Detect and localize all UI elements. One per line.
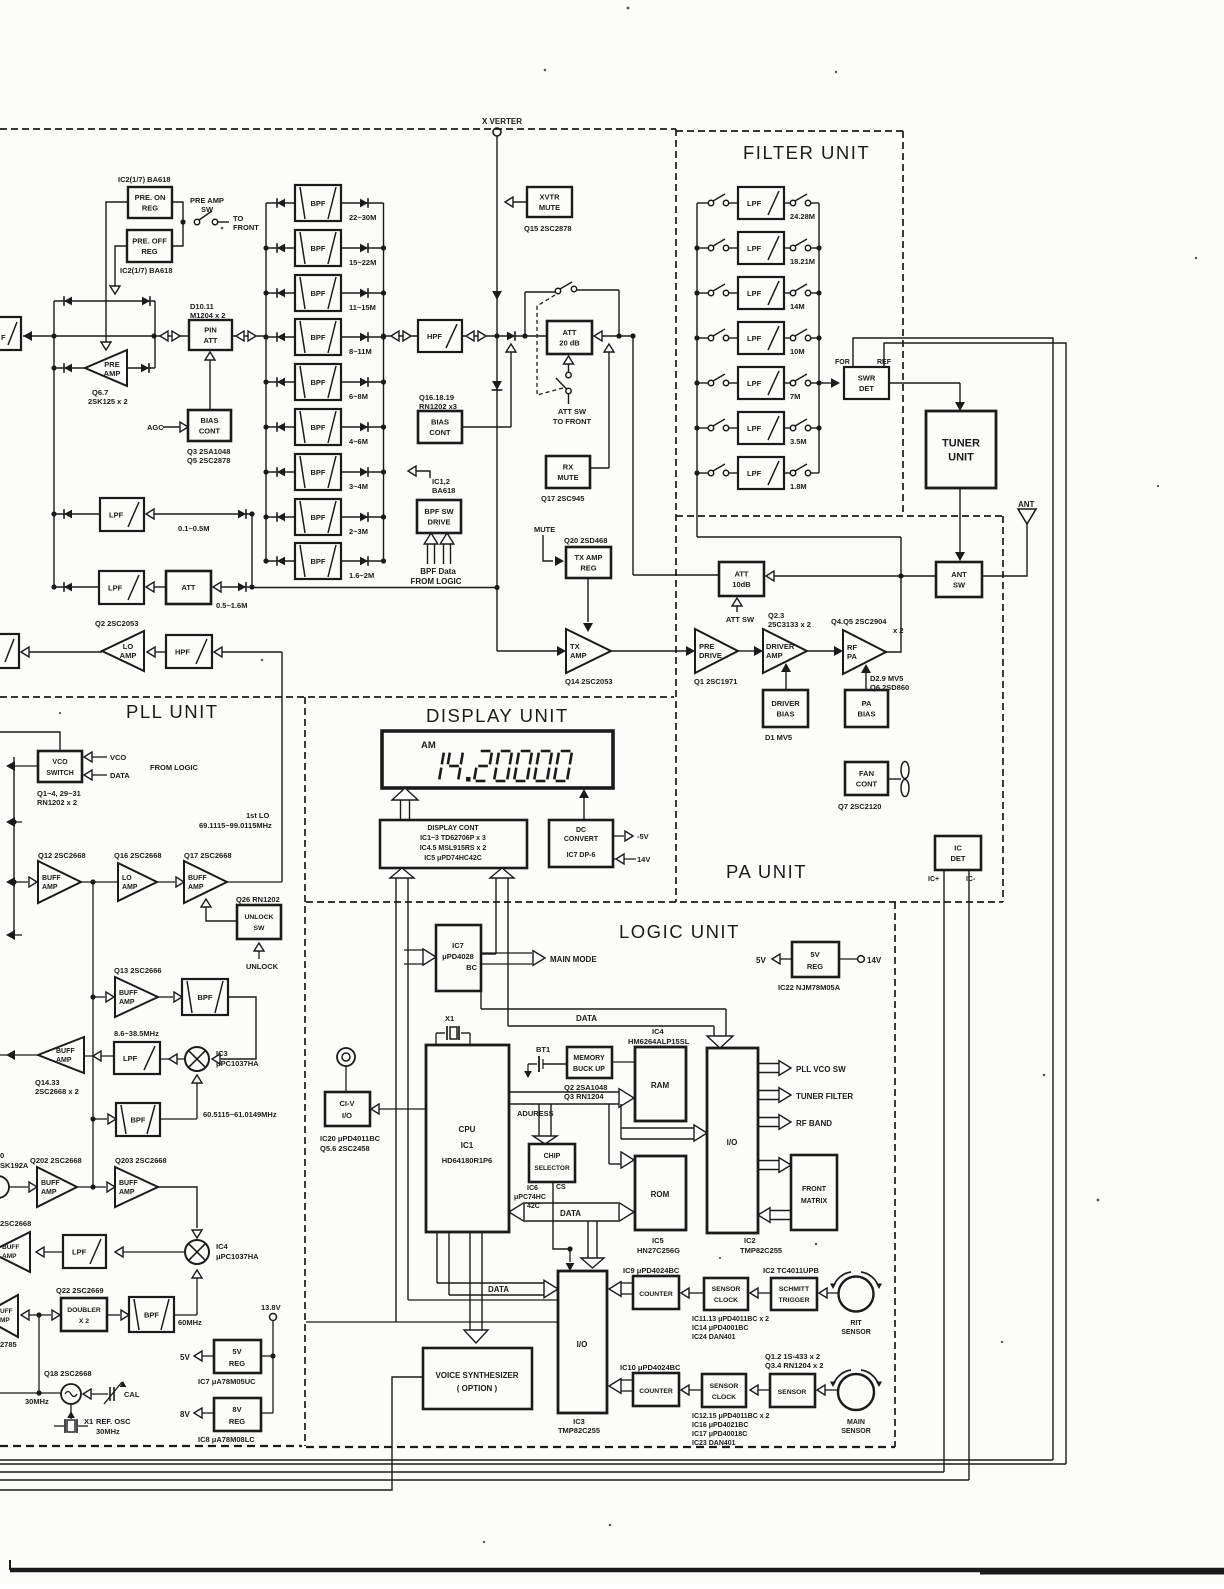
svg-text:Q5.6 2SC2458: Q5.6 2SC2458 <box>320 1144 370 1153</box>
svg-text:BUFF: BUFF <box>42 875 61 882</box>
wire RX MUTE to RX line <box>590 344 614 468</box>
attenuator ATT 10dB <box>719 562 764 596</box>
svg-text:Q20 2SD468: Q20 2SD468 <box>564 536 607 545</box>
svg-text:BPF: BPF <box>311 423 326 432</box>
svg-text:0.5~1.6M: 0.5~1.6M <box>216 601 247 610</box>
svg-text:ATT: ATT <box>562 328 576 337</box>
svg-text:AMP: AMP <box>570 651 587 660</box>
svg-text:( OPTION ): ( OPTION ) <box>457 1384 498 1393</box>
low-pass filter LPF 24.28M <box>697 187 819 221</box>
bias controller BIAS CONT Q3 Q5 <box>187 410 231 465</box>
high-pass filter HPF 2 <box>166 635 212 668</box>
RAM IC4 <box>628 1027 690 1121</box>
BPF bank left rail <box>263 203 268 564</box>
svg-text:PRE. ON: PRE. ON <box>135 193 166 202</box>
wire XVTR MUTE to X VERTER line <box>505 197 527 207</box>
svg-text:ANT: ANT <box>1018 500 1035 509</box>
band-pass filter BPF 1.6~2M <box>266 543 384 580</box>
svg-text:DET: DET <box>951 854 966 863</box>
svg-text:AMP: AMP <box>41 1189 57 1196</box>
svg-text:Q3 2SA1048: Q3 2SA1048 <box>187 447 230 456</box>
svg-text:1st LO: 1st LO <box>246 811 270 820</box>
low-pass filter LPF 0.5-1.6M and ATT <box>54 571 255 610</box>
band-pass filter BPF 22~30M <box>266 185 384 222</box>
sensor block Q1-Q4 <box>765 1352 823 1407</box>
display controller DISPLAY CONT <box>380 820 527 868</box>
frequency display digits 14.20000 <box>439 751 572 782</box>
bus BPF Data from logic <box>410 533 461 586</box>
svg-text:IC11.13 μPD4011BC x 2: IC11.13 μPD4011BC x 2 <box>692 1316 769 1323</box>
node 8.6-38.5MHz <box>114 1029 159 1038</box>
svg-text:BIAS: BIAS <box>858 709 876 718</box>
svg-text:BPF: BPF <box>311 244 326 253</box>
svg-text:AMP: AMP <box>766 651 783 660</box>
svg-text:Q13 2SC2666: Q13 2SC2666 <box>114 966 162 975</box>
bus RAM to IO <box>609 1104 707 1164</box>
bus FRONT MATRIX to IO <box>758 1208 791 1223</box>
svg-text:CHIP: CHIP <box>544 1153 561 1160</box>
svg-text:IC17 μPD40018C: IC17 μPD40018C <box>692 1431 747 1438</box>
svg-text:SENSOR: SENSOR <box>712 1286 741 1293</box>
svg-text:BUFF: BUFF <box>188 875 207 882</box>
svg-text:AGC: AGC <box>147 423 164 432</box>
svg-text:SENSOR: SENSOR <box>841 1329 871 1336</box>
node MUTE <box>534 525 564 566</box>
svg-text:SENSOR: SENSOR <box>841 1428 871 1435</box>
svg-text:MP: MP <box>0 1317 10 1324</box>
mute block RX MUTE Q17 <box>541 456 590 503</box>
ATT SW lower switch <box>553 356 592 426</box>
pre-driver Q1 2SC1971 <box>694 629 738 686</box>
svg-text:PLL VCO SW: PLL VCO SW <box>796 1065 846 1074</box>
svg-text:Q4.Q5 2SC2904: Q4.Q5 2SC2904 <box>831 617 887 626</box>
ROM IC5 <box>635 1156 686 1255</box>
svg-text:2SC2668: 2SC2668 <box>0 1219 31 1228</box>
buffer amplifier Q15 at edge <box>0 1295 18 1349</box>
svg-text:IC10 μPD4024BC: IC10 μPD4024BC <box>620 1363 681 1372</box>
svg-text:BUFF: BUFF <box>2 1244 19 1251</box>
svg-text:LPF: LPF <box>747 424 762 433</box>
antenna ANT <box>982 500 1036 576</box>
frequency display frame <box>382 731 613 788</box>
wire Q203 to mixer IC4 <box>158 1187 202 1238</box>
switch PRE AMP SW <box>172 196 259 246</box>
wire Q202 to Q203 <box>77 1182 115 1192</box>
svg-text:CAL: CAL <box>124 1390 140 1399</box>
tuner unit block <box>926 411 996 488</box>
bus CPU to voice synthesizer <box>464 1232 488 1343</box>
wire PRE DRIVE to DRIVER AMP <box>738 646 763 656</box>
svg-text:1.8M: 1.8M <box>790 482 807 491</box>
svg-text:MEMORY: MEMORY <box>573 1055 605 1062</box>
svg-text:BPF SW: BPF SW <box>424 507 454 516</box>
svg-text:HPF: HPF <box>427 332 442 341</box>
wire bus line 1 <box>0 1459 1053 1461</box>
svg-text:4~6M: 4~6M <box>349 437 368 446</box>
svg-text:Q17 2SC945: Q17 2SC945 <box>541 494 584 503</box>
svg-text:LOGIC UNIT: LOGIC UNIT <box>619 921 740 942</box>
crystal X1 <box>436 1014 470 1045</box>
svg-text:SW: SW <box>953 580 966 589</box>
svg-text:24.28M: 24.28M <box>790 212 815 221</box>
wire rail to Q12 <box>14 877 37 887</box>
BPF bank right rail <box>381 203 386 564</box>
wire LPF to buffer Q14 <box>84 1051 114 1061</box>
wire filter unit bottom feed <box>697 536 901 538</box>
wire BPF SW DRIVE output <box>408 466 430 478</box>
svg-text:RX: RX <box>563 463 573 472</box>
pre-amplifier Q6 Q7 <box>85 350 128 406</box>
svg-text:14V: 14V <box>867 956 882 965</box>
wire LO AMP output to left <box>21 647 102 657</box>
wire driver bias arrow <box>781 663 791 690</box>
svg-text:TO FRONT: TO FRONT <box>553 417 592 426</box>
wire bus line 4 <box>0 1479 969 1481</box>
svg-text:TRIGGER: TRIGGER <box>779 1297 810 1304</box>
svg-text:8.6~38.5MHz: 8.6~38.5MHz <box>114 1029 159 1038</box>
page edge bottom border <box>10 1560 1224 1572</box>
svg-text:0.1~0.5M: 0.1~0.5M <box>178 524 209 533</box>
unlock switch Q26 <box>236 895 281 939</box>
svg-text:REG: REG <box>229 1359 245 1368</box>
svg-text:SWR: SWR <box>858 374 876 383</box>
svg-text:CONT: CONT <box>199 426 221 435</box>
RF power amplifier Q4 Q5 <box>831 617 903 674</box>
wire voice synthesizer to bus <box>0 1377 423 1490</box>
band-pass filter BPF 8~11M <box>266 319 384 356</box>
svg-text:Q15 2SC2878: Q15 2SC2878 <box>524 224 572 233</box>
wire mixer IC3 LO input <box>192 1075 202 1119</box>
wire PRE.OFF REG to bypass line <box>110 246 127 294</box>
svg-text:LPF: LPF <box>123 1054 138 1063</box>
bus DISPLAY CONT to display <box>392 788 418 820</box>
wire main sensor to sensor <box>817 1385 838 1395</box>
svg-text:SWITCH: SWITCH <box>46 770 74 777</box>
svg-text:IC4.5 MSL915RS x 2: IC4.5 MSL915RS x 2 <box>420 845 487 852</box>
svg-text:FRONT: FRONT <box>233 223 259 232</box>
svg-text:42C: 42C <box>527 1203 540 1210</box>
svg-text:LPF: LPF <box>747 244 762 253</box>
wire IC+ line <box>943 870 945 1472</box>
svg-text:FILTER UNIT: FILTER UNIT <box>743 142 870 163</box>
svg-text:VCO: VCO <box>52 759 68 766</box>
svg-text:AMP: AMP <box>2 1253 17 1260</box>
buffer amplifier Q14 Q33 <box>35 1037 84 1096</box>
ATT 20dB bypass wire and switch <box>525 282 622 339</box>
svg-text:1.6~2M: 1.6~2M <box>349 571 374 580</box>
svg-text:DISPLAY CONT: DISPLAY CONT <box>427 825 479 832</box>
svg-text:DRIVER: DRIVER <box>766 642 795 651</box>
svg-text:8V: 8V <box>180 1410 190 1419</box>
svg-text:Q22 2SC2669: Q22 2SC2669 <box>56 1286 104 1295</box>
svg-text:15~22M: 15~22M <box>349 258 376 267</box>
svg-text:Q5 2SC2878: Q5 2SC2878 <box>187 456 230 465</box>
svg-text:BPF: BPF <box>311 513 326 522</box>
svg-text:BPF: BPF <box>311 333 326 342</box>
svg-text:BPF: BPF <box>311 468 326 477</box>
svg-text:μPC1037HA: μPC1037HA <box>216 1059 259 1068</box>
wire BIAS CONT to RX line <box>462 344 516 427</box>
svg-text:BIAS: BIAS <box>431 418 449 427</box>
wire TX amp input <box>497 646 566 656</box>
buffer amplifier left lower <box>0 1219 31 1272</box>
svg-text:LPF: LPF <box>747 334 762 343</box>
high-pass filter HPF <box>418 320 462 352</box>
svg-text:SENSOR: SENSOR <box>710 1383 739 1390</box>
svg-text:25C3133 x 2: 25C3133 x 2 <box>768 620 811 629</box>
svg-text:3.5M: 3.5M <box>790 437 807 446</box>
LO amplifier Q16 <box>114 851 162 901</box>
counter IC9 <box>623 1266 680 1309</box>
dc converter DC CONVERT IC7 <box>549 820 613 867</box>
svg-text:BUFF: BUFF <box>41 1180 60 1187</box>
svg-text:BPF: BPF <box>311 557 326 566</box>
svg-text:BC: BC <box>466 963 477 972</box>
band-pass filter BPF 2~3M <box>266 499 384 536</box>
wire X VERTER vertical <box>492 136 502 651</box>
svg-text:IC1~3 TD62706P x 3: IC1~3 TD62706P x 3 <box>420 835 486 842</box>
svg-text:LPF: LPF <box>109 511 124 520</box>
bias controller BIAS CONT Q16 Q18 Q19 <box>418 393 462 443</box>
svg-text:Q6 2SD860: Q6 2SD860 <box>870 683 909 692</box>
svg-text:I/O: I/O <box>577 1340 588 1349</box>
svg-text:Q17 2SC2668: Q17 2SC2668 <box>184 851 232 860</box>
preamp bypass top branch with diodes <box>54 296 155 306</box>
low-pass filter LPF 1.8M <box>697 457 819 491</box>
svg-text:x 2: x 2 <box>893 626 903 635</box>
svg-text:IC+: IC+ <box>928 876 939 883</box>
svg-text:5V: 5V <box>756 956 766 965</box>
wire Q12 junction down to Q13 and Q202 <box>90 882 95 1187</box>
svg-text:BPF Data: BPF Data <box>420 567 456 576</box>
wire 14V input <box>613 854 650 864</box>
memory backup block Q2 Q3 <box>564 1047 612 1101</box>
svg-text:LO: LO <box>122 875 132 882</box>
wire unlock sw to Q17 <box>201 899 237 921</box>
svg-text:LPF: LPF <box>747 289 762 298</box>
wire low band line to TX amp <box>252 585 500 590</box>
svg-text:IC7 μA78M05UC: IC7 μA78M05UC <box>198 1377 256 1386</box>
wire IC- line <box>968 870 970 1480</box>
svg-text:14V: 14V <box>637 855 650 864</box>
driver BPF SW DRIVE IC1 IC2 <box>417 477 461 533</box>
svg-text:30MHz: 30MHz <box>96 1427 120 1436</box>
svg-text:2785: 2785 <box>0 1340 17 1349</box>
buffer amplifier Q203 <box>115 1156 167 1207</box>
svg-text:20 dB: 20 dB <box>559 338 580 347</box>
svg-text:DET: DET <box>859 384 874 393</box>
battery BT1 <box>524 1045 567 1078</box>
svg-text:RF: RF <box>847 643 857 652</box>
svg-text:Q2 2SC2053: Q2 2SC2053 <box>95 619 138 628</box>
svg-text:RN1202 x3: RN1202 x3 <box>419 402 457 411</box>
wire VCO switch top <box>0 732 60 751</box>
schmitt trigger IC2 TC4011UPB <box>763 1266 819 1310</box>
svg-text:DRIVER: DRIVER <box>771 699 800 708</box>
svg-text:IC5 μPD74HC42C: IC5 μPD74HC42C <box>424 855 482 862</box>
wire REF line to IC DET rail <box>884 343 1066 1464</box>
LOGIC unit bottom dashed boundary <box>306 1446 895 1448</box>
diode on X VERTER line <box>492 381 503 390</box>
svg-text:TUNER: TUNER <box>942 438 980 450</box>
svg-text:IC8 μA78M08LC: IC8 μA78M08LC <box>198 1435 255 1444</box>
node 60.5115-61.0149MHz <box>203 1110 277 1119</box>
bus IO to TUNER FILTER <box>758 1088 853 1103</box>
svg-text:UFF: UFF <box>0 1308 13 1315</box>
svg-text:8V: 8V <box>232 1405 241 1414</box>
svg-text:DATA: DATA <box>576 1014 597 1023</box>
ATT SW gang linkage dashed <box>537 295 563 395</box>
svg-text:CI-V: CI-V <box>340 1099 355 1108</box>
wire ATT 20dB output to PA attenuator <box>594 331 636 575</box>
bus counter to IO 2 <box>609 1379 633 1394</box>
svg-text:DOUBLER: DOUBLER <box>67 1307 101 1314</box>
filter unit left rail <box>694 203 699 537</box>
svg-text:LPF: LPF <box>747 379 762 388</box>
svg-text:D2.9 MV5: D2.9 MV5 <box>870 674 903 683</box>
sensor clock 2 block <box>692 1374 770 1447</box>
wire chip select to IO <box>553 1182 574 1271</box>
svg-text:LO: LO <box>123 642 134 651</box>
wire LO AMP to Q17 <box>157 877 184 887</box>
svg-text:DC: DC <box>576 827 586 834</box>
svg-text:FROM LOGIC: FROM LOGIC <box>410 577 461 586</box>
svg-text:60MHz: 60MHz <box>178 1318 202 1327</box>
mixer IC3 uPC1037HA <box>185 1047 259 1071</box>
svg-text:Q1~4, 29~31: Q1~4, 29~31 <box>37 789 81 798</box>
svg-text:BIAS: BIAS <box>777 709 795 718</box>
svg-text:X VERTER: X VERTER <box>482 117 522 126</box>
band-pass filter 60MHz <box>107 1297 202 1332</box>
svg-text:5V: 5V <box>810 950 819 959</box>
wire HPF to ATT 20dB <box>462 331 547 341</box>
svg-text:IC9 μPD4024BC: IC9 μPD4024BC <box>623 1266 680 1275</box>
svg-text:PIN: PIN <box>204 326 217 335</box>
svg-text:IC-: IC- <box>966 876 976 883</box>
regulator PRE.ON REG <box>118 175 172 218</box>
svg-text:0: 0 <box>0 1151 4 1160</box>
attenuator ATT 20dB <box>547 321 592 354</box>
title FILTER UNIT <box>743 142 870 163</box>
fan symbol <box>888 762 909 797</box>
regulator 5V REG IC7 <box>180 1340 261 1386</box>
PA unit dashed boundary <box>306 516 1003 902</box>
CPU IC1 HD64180R1P6 <box>426 1045 509 1232</box>
wire sensor clock to counter 1 <box>681 1288 704 1298</box>
wire junction to PIN ATT <box>154 331 189 341</box>
title PLL UNIT <box>126 701 219 722</box>
wire sensor clock 2 to counter 2 <box>681 1385 702 1395</box>
band-pass filter BPF 11~15M <box>266 275 384 312</box>
LO amplifier Q2 2SC2053 <box>95 619 144 671</box>
svg-text:IC7: IC7 <box>452 941 464 950</box>
bus DATA top CPU to IO <box>481 991 733 1048</box>
svg-text:M1204 x 2: M1204 x 2 <box>190 311 225 320</box>
svg-text:3~4M: 3~4M <box>349 482 368 491</box>
chip selector block IC6 <box>514 1144 575 1210</box>
svg-text:MUTE: MUTE <box>539 203 560 212</box>
svg-text:-5V: -5V <box>637 832 649 841</box>
low-pass filter LPF 14M <box>697 277 819 311</box>
svg-text:PA: PA <box>847 652 857 661</box>
svg-text:7M: 7M <box>790 392 800 401</box>
wire Q12 to LO AMP <box>81 879 118 884</box>
svg-text:IC2 TC4011UPB: IC2 TC4011UPB <box>763 1266 819 1275</box>
bus IO to RF BAND <box>758 1115 832 1130</box>
svg-text:TUNER FILTER: TUNER FILTER <box>796 1092 853 1101</box>
svg-text:IC4: IC4 <box>216 1242 229 1251</box>
svg-text:IC24 DAN401: IC24 DAN401 <box>692 1334 736 1341</box>
svg-text:COUNTER: COUNTER <box>639 1291 673 1298</box>
svg-text:AM: AM <box>421 740 436 751</box>
buffer amplifier Q202 <box>9 1156 82 1207</box>
svg-text:PRE. OFF: PRE. OFF <box>132 237 167 246</box>
svg-text:LPF: LPF <box>747 199 762 208</box>
frequency doubler Q22 <box>52 1286 107 1331</box>
svg-text:LPF: LPF <box>72 1248 87 1257</box>
wire PIN ATT bias feed <box>205 352 215 410</box>
wire memory backup to RAM <box>612 1061 635 1063</box>
IO controller IC3 TMP82C255 <box>558 1271 607 1435</box>
band-pass filter after Q13 <box>158 979 228 1015</box>
counter IC10 <box>620 1363 681 1406</box>
svg-text:X1: X1 <box>445 1014 454 1023</box>
svg-text:FRONT: FRONT <box>802 1186 827 1193</box>
svg-text:IC12.15 μPD4011BC x 2: IC12.15 μPD4011BC x 2 <box>692 1413 770 1420</box>
svg-text:BUCK UP: BUCK UP <box>573 1066 605 1073</box>
reference oscillator Q18 <box>39 1369 92 1404</box>
band-pass filter BPF 6~8M <box>266 364 384 401</box>
wire -5V output <box>613 831 649 841</box>
band-pass filter BPF 3~4M <box>266 454 384 491</box>
svg-text:BUFF: BUFF <box>56 1048 75 1055</box>
svg-text:X 2: X 2 <box>79 1318 89 1325</box>
svg-text:LPF: LPF <box>747 469 762 478</box>
wire BPF to mixer IC3 <box>212 997 256 1064</box>
svg-text:IC3: IC3 <box>216 1049 228 1058</box>
decoder IC7 uPD4028 <box>436 925 481 991</box>
svg-text:Q202 2SC2668: Q202 2SC2668 <box>30 1156 82 1165</box>
svg-text:μPC74HC: μPC74HC <box>514 1194 546 1201</box>
svg-text:HD64180R1P6: HD64180R1P6 <box>442 1156 492 1165</box>
bus IO to FRONT MATRIX <box>758 1158 791 1173</box>
svg-text:Q3 RN1204: Q3 RN1204 <box>564 1092 604 1101</box>
svg-text:TO: TO <box>233 214 243 223</box>
svg-text:ANT: ANT <box>951 570 967 579</box>
svg-text:μPC1037HA: μPC1037HA <box>216 1252 259 1261</box>
TX amplifier Q14 2SC2053 <box>565 629 613 686</box>
antenna switch ANT SW <box>936 562 982 597</box>
SWR detector <box>819 359 892 399</box>
current detector IC DET <box>928 836 981 883</box>
svg-text:DRIVE: DRIVE <box>699 651 722 660</box>
svg-text:IC7 DP-6: IC7 DP-6 <box>567 852 596 859</box>
node FROM LOGIC <box>150 763 198 772</box>
svg-text:IC5: IC5 <box>652 1236 664 1245</box>
svg-text:Q1.2 1S-433 x 2: Q1.2 1S-433 x 2 <box>765 1352 820 1361</box>
svg-text:MUTE: MUTE <box>534 525 555 534</box>
svg-text:CLOCK: CLOCK <box>714 1297 738 1304</box>
svg-text:AMP: AMP <box>56 1057 72 1064</box>
wire LPF2 to left buffer <box>36 1247 63 1257</box>
svg-text:LPF: LPF <box>108 584 123 593</box>
svg-text:PLL UNIT: PLL UNIT <box>126 701 219 722</box>
low-pass filter LPF 3.5M <box>697 412 819 446</box>
wire mixer IC4 output to LPF <box>115 1247 185 1257</box>
svg-text:AMP: AMP <box>104 369 121 378</box>
crystal X1 reference <box>54 1404 131 1436</box>
svg-text:HM6264ALP15SL: HM6264ALP15SL <box>628 1037 690 1046</box>
